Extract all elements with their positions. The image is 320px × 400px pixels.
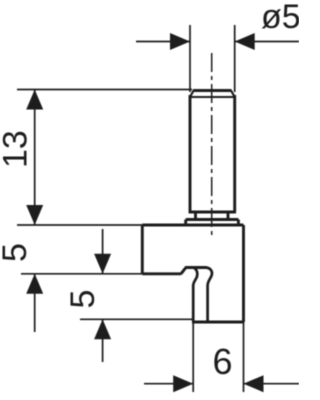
dim 6 dimension line left segment — [144, 383, 193, 385]
svg-text:13: 13 — [0, 130, 35, 168]
dim 13 top extension line — [17, 89, 192, 91]
dim 6 arrow left (points right) — [173, 375, 193, 392]
dim 5 lower line tail bottom — [102, 319, 104, 362]
slit left wall (S-curve) — [193, 268, 197, 322]
dim 5 lower upper line — [102, 229, 104, 274]
collar top edge — [186, 218, 239, 221]
block bottom edge — [192, 321, 244, 324]
svg-text:ø5: ø5 — [261, 0, 299, 36]
boss top bar — [185, 266, 207, 269]
pin right wall — [233, 95, 236, 212]
dim ø5 dimension line left segment — [136, 41, 190, 43]
pin top chamfer right — [231, 91, 235, 98]
slit right wall with rounded corner — [206, 268, 212, 322]
dim ø5 dimension line right segment — [235, 41, 299, 43]
dim 5 upper lower line tail — [34, 274, 36, 332]
dim 13 arrow bottom (points down, shared with upper 5) — [26, 205, 43, 225]
collar right wall — [237, 220, 240, 226]
dim 5 lower arrow bottom (points up) — [94, 319, 111, 339]
dim ø5 arrow right (points left) — [235, 33, 255, 50]
dim 6 arrow right (points left) — [244, 375, 264, 392]
block top edge — [142, 224, 243, 227]
svg-text:5: 5 — [0, 243, 34, 262]
dim ø5 extension line right — [234, 25, 236, 92]
block top extension line (left) — [17, 224, 142, 226]
pin top edge — [193, 89, 232, 92]
dim 13 arrow top (points up) — [26, 90, 43, 110]
svg-text:6: 6 — [213, 341, 233, 382]
collar left wall — [184, 220, 187, 226]
block right edge — [242, 225, 245, 322]
centerline of pin (dash-dot) — [211, 53, 213, 236]
dim 5 upper extension line (step surface extended) — [21, 273, 142, 275]
neck right wall — [227, 212, 230, 220]
pin chamfer base line — [190, 96, 235, 98]
dim 13 dimension line — [34, 90, 36, 226]
pin bottom edge — [189, 211, 236, 214]
pin left wall — [189, 95, 192, 212]
dim 5 lower arrow upper (points down) — [94, 254, 111, 274]
block step surface — [142, 272, 181, 275]
block left edge — [141, 225, 144, 274]
tongue bottom line / extension line of lower 5 — [80, 318, 193, 320]
dim ø5 extension line left — [189, 25, 191, 92]
dim 6 extension line left (slit wall extended) — [192, 322, 194, 393]
neck left wall — [194, 212, 197, 220]
dim ø5 arrow left (points right) — [170, 33, 190, 50]
pin top chamfer left — [190, 91, 194, 98]
dim 6 dimension line right segment — [244, 383, 300, 385]
step chamfer — [181, 268, 186, 274]
dim 6 extension line right — [243, 322, 245, 392]
dim 5 upper arrow (points up from below) — [26, 274, 43, 294]
svg-text:5: 5 — [64, 290, 102, 309]
